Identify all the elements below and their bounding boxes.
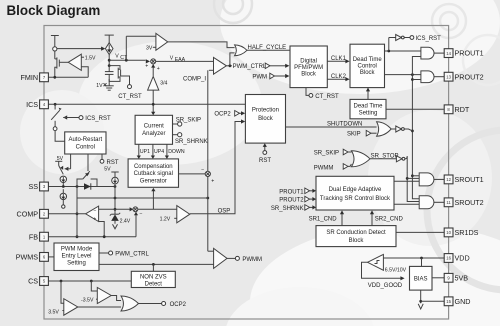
- svg-text:Current: Current: [144, 124, 164, 130]
- svg-text:Dead Time: Dead Time: [353, 57, 383, 63]
- svg-text:SR2_CND: SR2_CND: [375, 216, 404, 222]
- svg-text:PWM_CTRL: PWM_CTRL: [115, 251, 149, 257]
- svg-text:PROUT2: PROUT2: [455, 72, 484, 81]
- svg-text:SROUT1: SROUT1: [455, 175, 484, 184]
- svg-text:Tracking SR Control Block: Tracking SR Control Block: [320, 196, 391, 202]
- svg-text:3/4: 3/4: [160, 80, 167, 86]
- svg-text:SHUTDOWN: SHUTDOWN: [327, 122, 362, 128]
- svg-text:3V: 3V: [146, 46, 153, 52]
- svg-text:PWM_CTRL: PWM_CTRL: [233, 64, 267, 70]
- svg-text:GND: GND: [455, 297, 471, 306]
- svg-text:−: −: [93, 208, 96, 214]
- svg-text:13: 13: [446, 74, 451, 79]
- svg-text:Setting: Setting: [67, 261, 86, 267]
- svg-text:OCP2: OCP2: [214, 112, 231, 118]
- svg-text:+: +: [157, 66, 160, 72]
- svg-text:SR Conduction Detect: SR Conduction Detect: [326, 230, 386, 236]
- svg-text:PFM/PWM: PFM/PWM: [294, 65, 323, 71]
- svg-text:PWMM: PWMM: [242, 257, 262, 263]
- svg-text:1V: 1V: [96, 83, 103, 89]
- svg-text:PROUT2: PROUT2: [279, 198, 304, 204]
- svg-text:SR_SHRNK: SR_SHRNK: [271, 206, 304, 212]
- svg-text:CLK2: CLK2: [331, 74, 347, 80]
- svg-text:Auto-Restart: Auto-Restart: [68, 137, 102, 143]
- svg-text:6.5V/10V: 6.5V/10V: [385, 268, 407, 274]
- svg-text:CT_RST: CT_RST: [315, 94, 339, 100]
- svg-text:Block: Block: [360, 70, 376, 76]
- svg-text:Dual Edge Adaptive: Dual Edge Adaptive: [329, 187, 382, 193]
- svg-text:−: −: [201, 167, 204, 173]
- svg-text:12: 12: [446, 177, 451, 182]
- svg-text:SKIP: SKIP: [347, 132, 361, 138]
- svg-text:Block: Block: [258, 116, 274, 122]
- svg-text:Entry Level: Entry Level: [61, 254, 91, 260]
- svg-text:PWMM: PWMM: [314, 165, 334, 171]
- svg-text:CLK1: CLK1: [331, 56, 347, 62]
- svg-text:Control: Control: [358, 63, 377, 69]
- svg-text:COMP_I: COMP_I: [183, 76, 206, 82]
- svg-text:Control: Control: [76, 145, 95, 151]
- svg-text:OCP2: OCP2: [170, 302, 187, 308]
- svg-text:RDT: RDT: [455, 105, 470, 114]
- svg-text:SR1DS: SR1DS: [455, 228, 479, 237]
- svg-text:Generator: Generator: [140, 179, 167, 185]
- svg-text:PROUT1: PROUT1: [455, 49, 484, 58]
- svg-text:NON ZVS: NON ZVS: [140, 275, 167, 281]
- svg-text:16: 16: [446, 256, 451, 261]
- svg-text:−: −: [139, 211, 142, 217]
- svg-text:VDD: VDD: [455, 254, 470, 263]
- svg-text:Block: Block: [349, 238, 365, 244]
- svg-text:BIAS: BIAS: [414, 277, 428, 283]
- svg-text:+: +: [145, 64, 148, 70]
- svg-text:3.5V: 3.5V: [48, 309, 59, 315]
- svg-text:OSP: OSP: [218, 209, 231, 215]
- svg-text:RST: RST: [107, 160, 119, 166]
- svg-text:CT_RST: CT_RST: [118, 94, 142, 100]
- svg-text:PWMS: PWMS: [16, 253, 39, 262]
- svg-text:CS: CS: [28, 277, 38, 286]
- svg-text:10: 10: [446, 230, 451, 235]
- svg-text:Block: Block: [301, 72, 317, 78]
- svg-text:SR1_CND: SR1_CND: [309, 216, 338, 222]
- svg-text:SS: SS: [29, 182, 39, 191]
- svg-text:SR_SKIP: SR_SKIP: [176, 118, 201, 124]
- svg-text:PWM: PWM: [252, 74, 267, 80]
- svg-text:COMP: COMP: [17, 209, 39, 218]
- svg-text:ICS_RST: ICS_RST: [85, 116, 111, 122]
- svg-text:UP4: UP4: [154, 149, 164, 155]
- svg-text:V: V: [115, 54, 119, 60]
- svg-text:V: V: [170, 55, 174, 61]
- svg-text:1.2V: 1.2V: [160, 216, 171, 222]
- svg-text:PROUT1: PROUT1: [279, 189, 304, 195]
- svg-text:+: +: [93, 216, 96, 222]
- svg-text:Digital: Digital: [300, 58, 317, 64]
- svg-text:SROUT2: SROUT2: [455, 198, 484, 207]
- svg-text:Analyzer: Analyzer: [142, 131, 165, 137]
- svg-text:SR_SHRNK: SR_SHRNK: [175, 139, 208, 145]
- svg-text:Protection: Protection: [252, 107, 279, 113]
- svg-text:PWM Mode: PWM Mode: [61, 246, 93, 252]
- svg-text:HALF_CYCLE: HALF_CYCLE: [248, 45, 287, 51]
- svg-text:Setting: Setting: [359, 111, 378, 117]
- svg-text:ICS_RST: ICS_RST: [416, 36, 442, 42]
- svg-text:5V: 5V: [104, 166, 111, 172]
- svg-text:Compensation: Compensation: [134, 164, 173, 170]
- svg-text:UP1: UP1: [140, 149, 150, 155]
- svg-text:+: +: [211, 178, 214, 184]
- svg-text:SR_STOP: SR_STOP: [371, 153, 399, 159]
- svg-text:ICS: ICS: [26, 100, 38, 109]
- svg-text:Detect: Detect: [145, 282, 163, 288]
- svg-text:5VB: 5VB: [455, 273, 469, 282]
- svg-text:Cutback signal: Cutback signal: [134, 171, 173, 177]
- svg-text:1.5V: 1.5V: [85, 56, 96, 62]
- svg-text:14: 14: [446, 51, 451, 56]
- svg-text:FMIN: FMIN: [21, 73, 39, 82]
- svg-text:VDD_GOOD: VDD_GOOD: [368, 283, 403, 289]
- svg-text:SR_SKIP: SR_SKIP: [314, 150, 339, 156]
- svg-text:-3.5V: -3.5V: [81, 297, 94, 303]
- svg-text:2.4V: 2.4V: [120, 219, 131, 225]
- svg-text:EAA: EAA: [175, 57, 186, 63]
- svg-text:11: 11: [446, 200, 451, 205]
- svg-text:15: 15: [446, 299, 451, 304]
- svg-text:DOWN: DOWN: [168, 149, 185, 155]
- svg-text:Block Diagram: Block Diagram: [7, 3, 101, 18]
- svg-text:FB: FB: [29, 232, 38, 241]
- svg-text:RST: RST: [259, 158, 271, 164]
- svg-text:Dead Time: Dead Time: [353, 103, 383, 109]
